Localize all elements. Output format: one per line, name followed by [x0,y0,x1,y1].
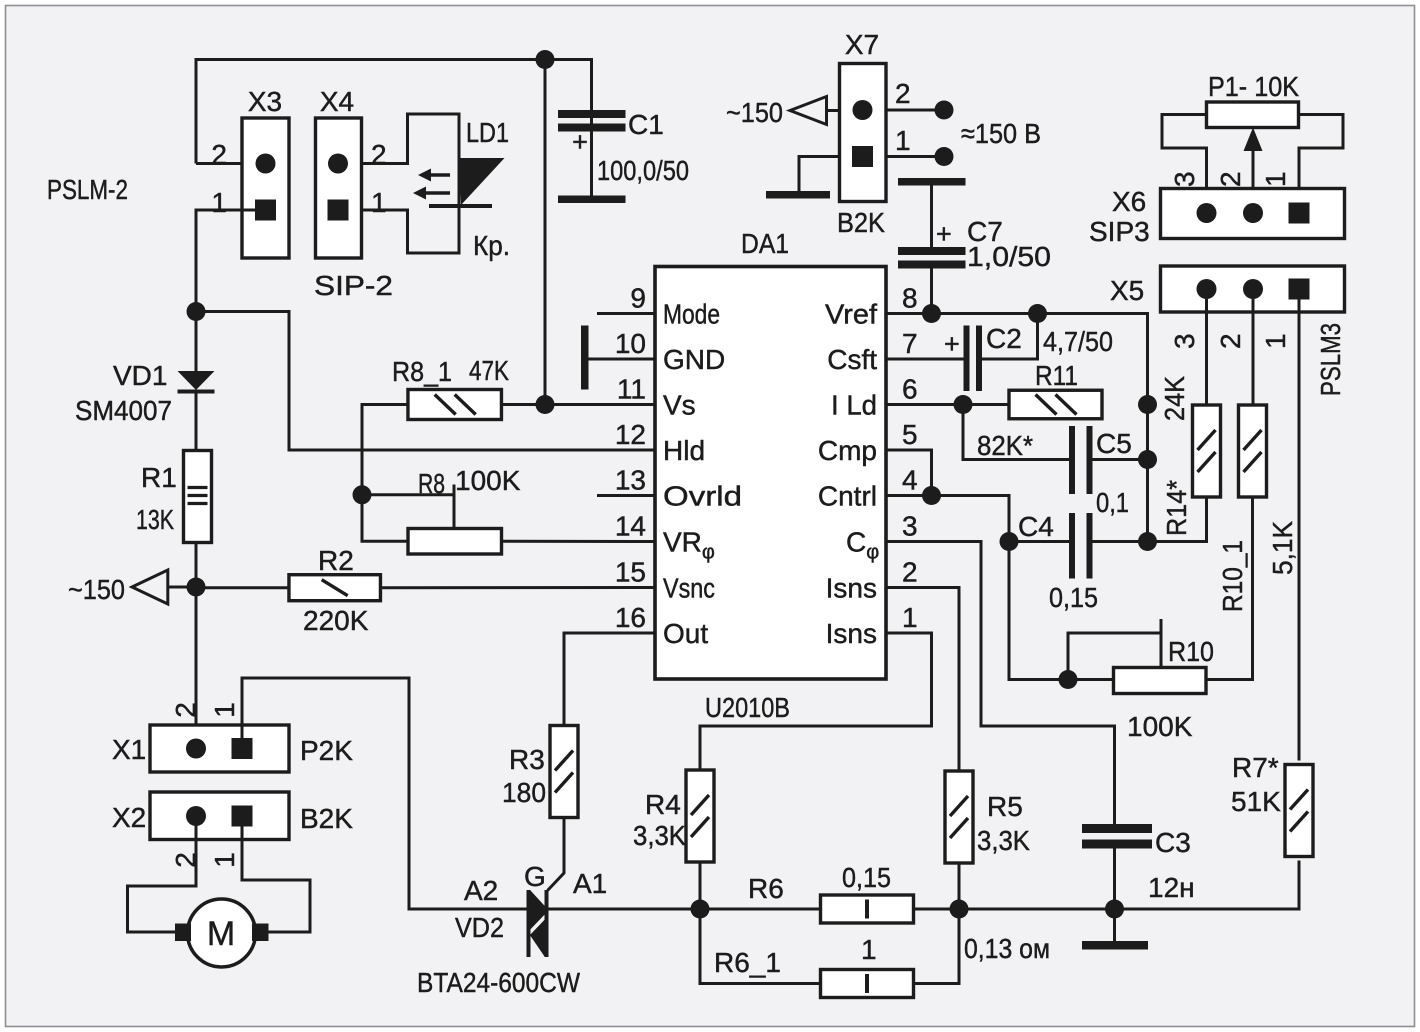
wire LD1 loop [362,114,460,253]
node A junction X3/VD1/Hld [187,302,206,321]
svg-text:0,13 ом: 0,13 ом [964,933,1050,964]
transistor Q1 triac VD2 [417,861,607,998]
wire top supply rail [196,60,592,164]
svg-text:3,3K: 3,3K [633,820,686,851]
svg-text:51K: 51K [1231,786,1281,817]
svg-text:~150: ~150 [726,97,783,128]
svg-text:X7: X7 [845,29,879,60]
svg-text:13K: 13K [136,504,174,535]
capacitor C4 [1009,511,1148,613]
svg-text:Isns: Isns [826,618,877,649]
wire ILd to C5 [963,405,1069,460]
svg-text:2: 2 [895,78,911,109]
svg-text:3,3K: 3,3K [977,825,1030,856]
wire X3 pin2 from rail [196,162,242,165]
svg-text:3: 3 [1169,171,1200,187]
svg-text:BTA24-600CW: BTA24-600CW [417,967,580,998]
svg-text:0,1: 0,1 [1096,487,1129,518]
wire Vs riser from top rail [544,60,547,405]
node R8 left junction [353,485,372,504]
wire Cntrl node down to R10 [1009,542,1068,680]
svg-text:R14*: R14* [1161,480,1192,536]
svg-text:R3: R3 [509,744,545,775]
svg-text:R6_1: R6_1 [714,947,781,978]
svg-text:Vsnc: Vsnc [663,573,715,604]
LED LD1 [413,117,510,261]
svg-text:2: 2 [1215,171,1246,187]
label ≈150 В [961,118,1041,149]
wire R8_1 to Vs pin11 [502,403,656,406]
svg-text:VD1: VD1 [113,360,167,391]
svg-text:GND: GND [663,344,725,375]
wire R14 bottom to bus [1148,497,1207,542]
wire node B to R2 [196,586,289,589]
wire node B down to X1 [195,587,198,725]
connector X5 [1110,266,1345,349]
svg-text:10: 10 [615,328,646,359]
node top-rail junction [536,50,555,69]
node Vs junction [536,395,555,414]
svg-text:5: 5 [902,419,918,450]
svg-text:7: 7 [902,328,918,359]
label PSLM3 [1315,323,1346,396]
wire X2 pin1 to motor [242,826,310,932]
svg-text:+: + [944,329,960,359]
wire P1 wiper arrow [1244,128,1263,214]
svg-text:R11: R11 [1035,360,1078,391]
resistor R7* [1231,752,1313,857]
svg-text:P1- 10K: P1- 10K [1208,71,1299,102]
svg-text:X6: X6 [1112,186,1146,217]
svg-text:2: 2 [170,702,201,718]
svg-text:Кр.: Кр. [473,230,510,261]
svg-text:I Ld: I Ld [831,390,877,421]
capacitor C1 [558,109,689,196]
ground common bar below C1 [558,196,626,204]
resistor R6_1 [714,934,914,998]
svg-text:U2010B: U2010B [705,692,790,723]
wire R2 to Vsnc pin15 [381,586,656,589]
svg-text:LD1: LD1 [466,117,509,148]
svg-text:13: 13 [615,465,646,496]
svg-text:DA1: DA1 [741,228,789,259]
svg-text:8: 8 [902,283,918,314]
wire P1 right leg [1299,115,1344,190]
capacitor C5 [1069,426,1148,518]
svg-text:1: 1 [902,602,918,633]
node C4 right junction [1138,532,1157,551]
svg-text:6: 6 [902,374,918,405]
svg-text:R2: R2 [318,545,354,576]
wire R10 wiper loop [1068,619,1161,680]
wire R1 to node B [195,543,198,588]
svg-text:2: 2 [1215,333,1246,349]
svg-text:B2K: B2K [837,207,885,238]
wire X2 pin2 to motor [128,826,197,932]
wire R6_1 loop right [914,909,960,984]
wire P1 left leg [1162,115,1207,190]
svg-text:X5: X5 [1110,275,1144,306]
node R5 sense junction [950,900,969,919]
resistor R14* [1159,376,1221,536]
svg-text:0,15: 0,15 [1049,582,1098,613]
svg-text:1: 1 [209,852,240,868]
svg-text:R6: R6 [748,873,784,904]
wire X5 pin1 to R7 [1298,299,1301,761]
wire R3 to gate [548,818,565,891]
svg-text:16: 16 [615,602,646,633]
wire Ovrld pin13 stub [597,494,655,497]
connector X4 [316,86,387,258]
svg-text:PSLM-2: PSLM-2 [47,174,128,205]
node C5 right junction [1138,450,1157,469]
resistor R4 [633,770,714,862]
capacitor C7 [898,186,1051,314]
ground bar X7 pin1 [766,157,840,199]
node C3 sense junction [1105,900,1124,919]
svg-text:B2K: B2K [300,803,353,834]
svg-text:R8: R8 [418,468,445,499]
svg-text:1: 1 [1260,171,1291,187]
svg-text:A1: A1 [573,868,607,899]
wire X5 pin3 to R14 [1205,299,1208,405]
wire Mode pin9 stub [597,312,655,315]
svg-text:+: + [572,127,588,157]
svg-text:Vs: Vs [663,390,696,421]
svg-text:100,0/50: 100,0/50 [597,155,689,186]
svg-text:A2: A2 [464,875,498,906]
wire Cmp pin5 [886,450,932,496]
svg-text:R7*: R7* [1232,752,1279,783]
svg-text:C2: C2 [986,323,1022,354]
wire R8 wiper [362,485,454,529]
svg-text:11: 11 [617,374,646,405]
svg-text:≈150 В: ≈150 В [961,118,1041,149]
diode VD1 [75,312,215,451]
svg-text:C4: C4 [1018,511,1054,542]
wire X3 pin1 to node A [196,210,255,312]
ground common bar above C7 [898,178,966,186]
wire X7 pin2 terminal [886,101,954,120]
capacitor C2 [886,314,1113,392]
svg-text:C1: C1 [628,109,664,140]
svg-text:24K: 24K [1159,376,1190,421]
connector X1 [112,702,353,772]
svg-text:1,0/50: 1,0/50 [967,241,1051,272]
svg-text:82K*: 82K* [977,430,1033,461]
wire R8 to VRphi pin14 [502,540,656,543]
wire R4 to sense node [699,862,702,909]
svg-text:+: + [936,219,952,249]
wire Isns pin2 to R5 [886,588,959,772]
svg-text:~150: ~150 [68,574,125,605]
resistor R2 [289,545,381,636]
svg-text:X1: X1 [112,734,146,765]
wire Cphi pin3 to C3 [886,542,1115,825]
svg-text:1: 1 [861,934,877,965]
wire X7 pin1 terminal [886,147,954,166]
wire Vref pin8 rail [886,314,1148,542]
resistor R3 [502,726,578,818]
svg-text:4: 4 [902,465,918,496]
svg-text:P2K: P2K [300,735,353,766]
connector X6 [1089,171,1345,247]
svg-text:SM4007: SM4007 [75,395,172,426]
wire R8_1 left leg [362,405,408,542]
svg-text:5,1K: 5,1K [1267,521,1298,575]
wire R10 right to R10_1 [1206,497,1253,680]
svg-text:Csft: Csft [827,344,877,375]
svg-text:15: 15 [615,557,646,588]
label SIP-2 [314,270,393,301]
label 0,13 ом [964,933,1050,964]
potentiometer R10 [1114,636,1215,742]
svg-text:Mode: Mode [663,299,720,330]
svg-text:Vref: Vref [825,299,877,330]
svg-text:R4: R4 [645,789,681,820]
capacitor C3 [1082,824,1195,909]
wire X1 pin1 to triac A2 [242,678,527,909]
wire X5 pin2 to R10_1 [1252,299,1255,405]
svg-text:G: G [524,861,546,892]
svg-text:Isns: Isns [826,573,877,604]
svg-text:SIP-2: SIP-2 [314,270,393,301]
resistor R1 [136,451,212,543]
wire R10 left [1068,678,1114,681]
resistor R11 [1009,360,1102,419]
svg-text:12: 12 [615,419,646,450]
wire R6_1 loop left [700,909,821,984]
svg-text:PSLM3: PSLM3 [1315,323,1346,396]
motor M [175,899,269,967]
svg-text:1: 1 [1260,333,1291,349]
svg-text:X4: X4 [320,86,354,117]
svg-text:R5: R5 [987,791,1023,822]
svg-text:9: 9 [630,283,646,314]
svg-text:4,7/50: 4,7/50 [1043,326,1113,357]
svg-text:Cmp: Cmp [818,435,877,466]
node Cmp-Cntrl junction [922,486,941,505]
svg-text:M: M [207,915,235,953]
svg-text:R8_1: R8_1 [392,356,452,387]
svg-text:180: 180 [502,777,546,808]
svg-text:220K: 220K [303,605,369,636]
connector X7 [837,29,911,238]
svg-text:0,15: 0,15 [842,862,891,893]
svg-text:2: 2 [211,139,227,170]
svg-text:X3: X3 [248,86,282,117]
wire triac A1 rail [549,861,1300,910]
wire R5 to sense node [958,863,961,909]
resistor R8_1 [392,355,509,420]
resistor R5 [945,771,1030,863]
svg-text:3: 3 [902,511,918,542]
svg-text:R10: R10 [1168,636,1214,667]
terminal ~150 upper [726,97,840,129]
node ILd junction [954,395,973,414]
svg-text:100K: 100K [455,465,521,496]
svg-text:1: 1 [209,702,240,718]
svg-text:47K: 47K [469,355,509,386]
svg-text:2: 2 [371,139,387,170]
svg-text:C5: C5 [1096,428,1132,459]
svg-text:1: 1 [895,125,911,156]
node Vref-C7 junction [922,304,941,323]
svg-text:Hld: Hld [663,435,705,466]
label 82K* [977,430,1033,461]
resistor R6 [748,862,914,923]
svg-text:2: 2 [902,557,918,588]
svg-text:14: 14 [615,511,646,542]
svg-text:Cntrl: Cntrl [818,481,877,512]
svg-text:R10_1: R10_1 [1217,540,1248,612]
connector X2 [112,792,353,868]
wire ILd pin6 [886,403,1009,406]
wire Isns pin1 to R4 [700,633,932,770]
svg-text:C3: C3 [1155,827,1191,858]
op-amp U1 IC DA1 U2010B [615,228,918,723]
node Cntrl-C4 junction [1000,532,1019,551]
ground bar below C3 [1082,909,1148,950]
resistor R10_1 [1217,405,1298,612]
svg-text:3: 3 [1169,333,1200,349]
node R4 sense junction [691,900,710,919]
svg-text:SIP3: SIP3 [1089,216,1150,247]
svg-text:X2: X2 [112,802,146,833]
svg-text:VD2: VD2 [455,912,504,943]
svg-text:Out: Out [663,618,708,649]
svg-text:Ovrld: Ovrld [663,481,742,512]
potentiometer P1 10K [1207,71,1300,128]
wire Hld from node A [196,312,655,451]
svg-text:12н: 12н [1148,872,1195,903]
svg-text:R1: R1 [141,462,177,493]
node R10 left junction [1059,670,1078,689]
label PSLM-2 [47,174,128,205]
svg-text:1: 1 [371,187,387,218]
svg-text:1: 1 [211,187,227,218]
wire Cntrl pin4 [886,496,1009,542]
node Vref-C2 junction [1028,304,1047,323]
node R11 right junction [1138,395,1157,414]
node B junction [187,578,206,597]
potentiometer R8 [408,465,521,554]
ground GND pin10 [581,326,655,390]
wire Out pin16 to R3 [564,633,655,726]
connector X3 [211,86,289,258]
terminal ~150 lower [68,570,196,605]
svg-text:100K: 100K [1127,711,1193,742]
